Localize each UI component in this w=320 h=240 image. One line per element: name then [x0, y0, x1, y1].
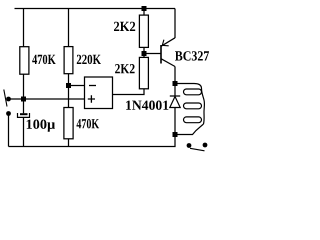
node J1 junction dot [66, 83, 71, 88]
transistor Q1 emitter slant [161, 38, 175, 46]
wire R2 top drop [68, 9, 70, 47]
relay contact right [203, 143, 208, 148]
op-amp U1 plus sign [88, 95, 95, 103]
resistor R1 470K body [20, 47, 29, 74]
wire R1 bottom to node [23, 74, 25, 113]
label R3 value 2K2 [114, 22, 135, 31]
relay K1 coil entry stub [175, 84, 202, 89]
wire R5 bottom to ground rail [68, 139, 70, 147]
label Q1 BC327 [175, 51, 209, 60]
relay contact lever [190, 148, 205, 151]
relay K1 coil right connector [202, 89, 205, 125]
switch S1 lever [4, 90, 7, 107]
resistor R2 220K body [64, 47, 73, 74]
wire base to transistor [144, 53, 161, 55]
wire collector down to coil node [174, 67, 176, 84]
wire diode column [174, 84, 176, 135]
transistor Q1 emitter arrow [162, 40, 168, 46]
resistor R5 470K lower body [64, 108, 73, 139]
op-amp U1 minus sign [89, 85, 96, 87]
label R1 value 470K [32, 55, 55, 64]
op-amp U1 box [85, 77, 113, 109]
wire R2 bottom to node J1 [68, 74, 70, 86]
wire C1 bottom to ground rail [23, 117, 25, 146]
relay K1 coil turn 2 [184, 103, 202, 109]
relay contact left [187, 143, 192, 148]
diode D1 triangle [170, 97, 180, 108]
node switch/cap junction dot [21, 97, 26, 102]
wire switch lower contact to ground rail [8, 114, 10, 147]
resistor R4 2K2 lower body [139, 57, 148, 88]
wire top rail VCC [15, 8, 176, 10]
node collector/coil junction dot [173, 81, 178, 86]
label R5 value 470K [77, 119, 100, 128]
switch S1 upper contact [6, 97, 11, 102]
capacitor C1 minus cup [18, 113, 30, 117]
label C1 value 100µ [27, 120, 55, 132]
label R4 value 2K2 [115, 64, 135, 73]
relay K1 coil turn 3 [184, 117, 202, 123]
wire minus input [69, 85, 85, 87]
wire ground rail [9, 135, 176, 147]
wire op-amp output [113, 89, 145, 95]
relay K1 coil exit [175, 124, 204, 135]
wire plus input from switch node [9, 98, 85, 100]
wire R4 top to base node [143, 54, 145, 58]
wire R3 bottom to base node [143, 47, 145, 53]
relay K1 coil turn 1 [184, 89, 202, 95]
resistor R3 2K2 upper body [139, 15, 148, 47]
node coil bottom junction dot [173, 132, 178, 137]
node VCC junction dot [142, 6, 147, 11]
capacitor C1 plus plate [20, 113, 28, 115]
switch S1 lower contact [6, 111, 11, 116]
wire emitter to VCC rail [174, 9, 176, 39]
label R2 value 220K [77, 55, 101, 64]
transistor Q1 base bar [160, 45, 162, 64]
node base junction dot [142, 51, 147, 56]
wire R1 top drop [23, 9, 25, 47]
label D1 1N4001 [126, 101, 168, 110]
wire node J1 to 470K lower [68, 86, 70, 108]
transistor Q1 collector slant [161, 59, 175, 67]
diode D1 cathode bar [170, 95, 180, 97]
wire R3 top drop [143, 9, 145, 16]
